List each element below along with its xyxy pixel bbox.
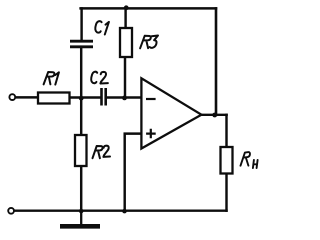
wire R2 bottom lead to bottom net (80, 166, 82, 211)
ground (60, 211, 100, 227)
node B junction (122, 96, 127, 101)
wire output corner down to Rn (225, 115, 227, 147)
resistor R1 (38, 72, 70, 104)
node junction noninverting on bottom net (122, 209, 127, 214)
wire bottom horizontal net (15, 209, 227, 211)
resistor R2 (75, 135, 110, 166)
wire op-amp noninverting input down to bottom net (125, 134, 141, 211)
node output junction (212, 113, 217, 118)
wire C1 bottom lead to node A (80, 48, 82, 98)
wire R1 to C2 through node A (70, 96, 101, 98)
wire node A down to R2 (80, 98, 82, 136)
capacitor C1 (70, 21, 109, 47)
capacitor C2 (91, 72, 108, 106)
terminal input 2 (8, 208, 14, 214)
node A junction (79, 96, 84, 101)
wire C1 top lead (80, 8, 82, 40)
wire right vertical from top to output node (215, 8, 218, 114)
wire op-amp output to right corner (202, 114, 227, 116)
wire top horizontal net (81, 7, 216, 10)
wire R3 top lead (124, 8, 126, 28)
wire Rn bottom lead (225, 174, 227, 211)
wire C2 to op-amp inverting input through node B (107, 96, 141, 98)
terminal input 1 (9, 94, 15, 100)
node junction R3 top on top net (124, 5, 129, 10)
wire input1 to R1 (16, 96, 39, 98)
wire R3 bottom lead to node B (124, 57, 126, 98)
resistor Rn (load) (221, 147, 258, 174)
node junction R2/ground on bottom net (79, 209, 84, 214)
op-amp U1 (141, 78, 201, 148)
resistor R3 (120, 28, 158, 57)
